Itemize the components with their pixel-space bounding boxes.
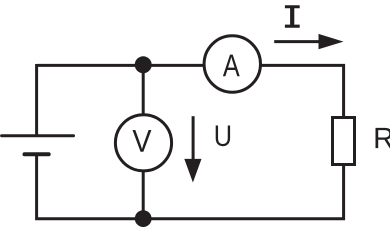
label A (ammeter) — [223, 55, 240, 77]
resistor R (rectangle) — [333, 118, 355, 165]
battery B1: short thick plate (-) — [25, 152, 49, 156]
voltmeter U2 (circle) — [115, 115, 171, 171]
battery B1: long thin plate (+) — [2, 134, 74, 137]
wire: left lower vertical + bottom horizontal + right lower vertical — [37, 154, 344, 219]
ammeter U1 (circle) — [204, 36, 260, 92]
label V (voltmeter) — [133, 130, 152, 152]
wire: voltmeter stem top — [142, 65, 145, 115]
label I (drawn with serif bars) — [285, 5, 300, 28]
label R — [376, 128, 390, 148]
wire: ammeter right to top-right corner and down to resistor — [262, 65, 344, 117]
wire: top-left horizontal (battery to ammeter) — [37, 64, 203, 67]
node: top junction dot — [135, 56, 152, 73]
arrow I (current, rightward) — [274, 40, 322, 43]
wire: voltmeter stem bottom — [142, 172, 145, 218]
node: bottom junction dot — [135, 210, 152, 227]
wire: left upper vertical (top wire down to battery + plate) — [35, 64, 38, 135]
label U — [216, 126, 230, 147]
arrow U (voltage, downward) — [192, 116, 195, 162]
